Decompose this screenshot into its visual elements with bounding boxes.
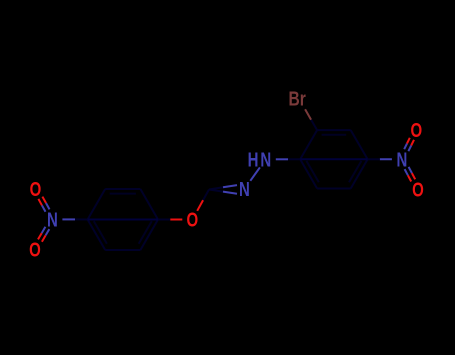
- svg-text:N: N: [396, 148, 407, 171]
- svg-text:H: H: [248, 148, 259, 171]
- svg-text:O: O: [29, 238, 41, 261]
- svg-text:N: N: [260, 148, 271, 171]
- svg-text:O: O: [30, 178, 42, 201]
- svg-text:O: O: [412, 178, 424, 201]
- svg-text:Br: Br: [289, 88, 306, 110]
- svg-text:N: N: [47, 208, 58, 231]
- svg-text:O: O: [410, 119, 422, 142]
- svg-text:N: N: [239, 178, 250, 201]
- svg-text:O: O: [186, 209, 198, 232]
